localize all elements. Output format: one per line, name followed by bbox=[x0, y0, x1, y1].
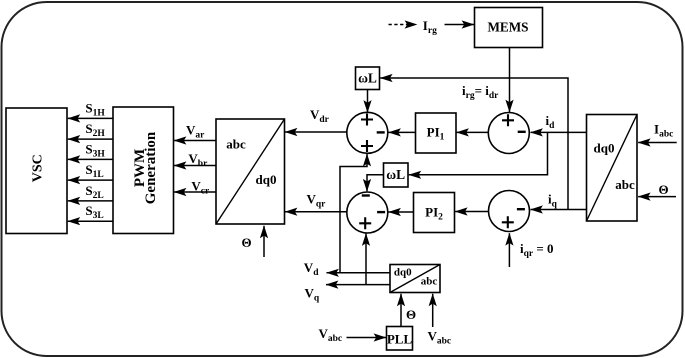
svg-text:ωL: ωL bbox=[358, 71, 377, 86]
svg-text:Θ: Θ bbox=[658, 182, 668, 197]
svg-text:Θ: Θ bbox=[406, 307, 416, 322]
svg-text:dq0: dq0 bbox=[594, 141, 615, 156]
svg-text:abc: abc bbox=[421, 275, 438, 287]
svg-text:abc: abc bbox=[226, 137, 246, 152]
svg-text:Θ: Θ bbox=[241, 235, 251, 250]
svg-text:MEMS: MEMS bbox=[487, 20, 528, 35]
svg-text:dq0: dq0 bbox=[256, 172, 277, 187]
svg-text:abc: abc bbox=[615, 177, 635, 192]
svg-text:ωL: ωL bbox=[386, 167, 405, 182]
svg-text:dq0: dq0 bbox=[394, 267, 412, 279]
svg-text:VSC: VSC bbox=[31, 154, 46, 182]
svg-text:PLL: PLL bbox=[387, 332, 413, 347]
